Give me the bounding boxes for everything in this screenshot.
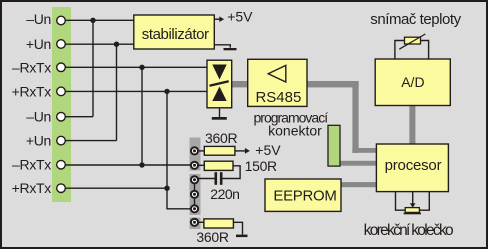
svg-text:A/D: A/D xyxy=(401,74,424,90)
pad c1 xyxy=(191,147,198,154)
TVS diode top xyxy=(212,65,226,80)
terminal t5 xyxy=(57,112,66,121)
svg-text:+Un: +Un xyxy=(26,36,51,52)
svg-text:+5V: +5V xyxy=(227,8,253,24)
wire -Un vertical t1 to t5 xyxy=(92,20,94,116)
wire 150R left xyxy=(198,164,204,166)
A/D box xyxy=(375,59,450,106)
svg-text:konektor: konektor xyxy=(268,123,322,139)
svg-text:–RxTx: –RxTx xyxy=(12,59,51,75)
svg-text:+5V: +5V xyxy=(255,142,281,158)
wire potentiometer right lead xyxy=(419,192,429,211)
terminal t2 xyxy=(57,40,66,49)
jumper pad strip 3 xyxy=(190,218,201,230)
terminal t3 xyxy=(57,63,66,72)
svg-text:korekční kolečko: korekční kolečko xyxy=(364,222,453,239)
svg-text:snímač teploty: snímač teploty xyxy=(370,11,461,28)
thermistor strike line xyxy=(399,34,425,49)
bus konektor to procesor xyxy=(339,161,377,166)
wire t6 +Un xyxy=(65,140,116,142)
junction J4b xyxy=(164,186,169,191)
svg-text:+Un: +Un xyxy=(26,133,51,149)
capacitor 220n plate left xyxy=(215,172,218,185)
thermistor body xyxy=(405,37,421,44)
wire thermistor right lead xyxy=(421,41,429,60)
terminal t7 xyxy=(57,160,66,169)
ground bar (TVS) xyxy=(212,117,227,120)
resistor 360R bottom xyxy=(204,219,234,228)
svg-text:+RxTx: +RxTx xyxy=(12,180,52,196)
wire +RxTx t4 to TVS xyxy=(65,90,207,92)
pad c5 xyxy=(191,205,198,212)
svg-text:220n: 220n xyxy=(210,186,239,202)
resistor 150R xyxy=(204,161,233,170)
wire -Un t1 to stabilizator xyxy=(65,19,134,21)
pad c4 xyxy=(191,191,198,198)
pad c6 xyxy=(191,219,198,226)
wire 360R bottom left xyxy=(198,221,204,223)
wire 360R top left xyxy=(198,150,204,152)
wire 360R top to +5V arrow xyxy=(235,150,246,152)
wire +Un vertical t2 to t6 xyxy=(116,44,118,140)
junction J2 xyxy=(114,42,119,47)
terminal t6 xyxy=(57,136,66,145)
wire 150R right down to cap xyxy=(222,166,240,179)
svg-text:360R: 360R xyxy=(196,229,228,245)
wire t8 +RxTx xyxy=(65,187,167,189)
terminal t4 xyxy=(57,87,66,96)
EEPROM box xyxy=(265,179,341,211)
ground bar (360R bottom) xyxy=(236,235,248,238)
programming connector (green) xyxy=(328,125,340,166)
connector terminal strip (green) xyxy=(52,7,71,202)
pad c2 xyxy=(191,162,198,169)
wire t5 -Un xyxy=(65,116,93,118)
potentiometer arrow xyxy=(410,203,416,208)
wire TVS top lead xyxy=(219,60,221,65)
wire potentiometer left lead xyxy=(396,192,406,211)
wire pad chain c3-c4-c5 xyxy=(194,180,196,209)
junction J1 xyxy=(90,18,95,23)
bus RS485 to corner (horizontal) xyxy=(307,81,359,87)
wire t8 down to pad c5 xyxy=(167,188,191,209)
wire 360R bottom to ground xyxy=(233,222,242,234)
bus EEPROM to procesor xyxy=(341,182,377,187)
TVS zener bar xyxy=(210,81,229,86)
potentiometer body xyxy=(405,208,419,213)
wire +Un t2 to stabilizator xyxy=(65,43,134,45)
wire stabilizator ground xyxy=(214,45,230,48)
svg-text:–Un: –Un xyxy=(26,11,51,27)
svg-text:360R: 360R xyxy=(205,130,237,146)
TVS transil box xyxy=(207,60,232,108)
junction J4 xyxy=(164,89,169,94)
capacitor 220n plate right xyxy=(220,172,223,185)
arrow +5V mid xyxy=(245,148,250,154)
arrow +5V top xyxy=(219,16,224,22)
wire -RxTx vertical t3 to t7 xyxy=(141,67,143,165)
bus A/D to procesor xyxy=(409,105,415,145)
bus corner to procesor xyxy=(352,148,377,153)
svg-text:150R: 150R xyxy=(245,158,277,174)
jumper pad strip 1 xyxy=(190,138,201,171)
bus corner vertical xyxy=(352,81,358,153)
wire cap left to pad c3 xyxy=(198,178,215,180)
svg-text:–RxTx: –RxTx xyxy=(12,157,51,173)
pad c3 xyxy=(191,176,198,183)
procesor box xyxy=(376,144,448,192)
svg-text:RS485: RS485 xyxy=(255,89,301,106)
ground bar (stabilizator) xyxy=(224,48,237,50)
svg-text:stabilizátor: stabilizátor xyxy=(142,26,209,43)
wire potentiometer wiper xyxy=(412,192,414,204)
wire -RxTx t3 to TVS xyxy=(65,66,207,68)
wire t7 -RxTx to pad c2 xyxy=(65,164,191,166)
svg-text:–Un: –Un xyxy=(26,109,51,125)
bus TVS to RS485 xyxy=(232,81,248,87)
svg-text:procesor: procesor xyxy=(385,157,442,174)
svg-text:EEPROM: EEPROM xyxy=(273,188,336,205)
TVS diode bottom xyxy=(212,87,226,102)
wire TVS bottom lead to ground xyxy=(219,101,221,117)
wire thermistor left lead xyxy=(395,41,405,60)
wire stabilizator +5V out xyxy=(214,18,220,20)
junction J3 xyxy=(139,65,144,70)
terminal t8 xyxy=(57,184,66,193)
RS485 box xyxy=(248,59,307,106)
junction J3b xyxy=(139,162,144,167)
svg-text:+RxTx: +RxTx xyxy=(12,83,52,99)
terminal t1 xyxy=(57,16,66,25)
stabilizator box xyxy=(134,15,215,49)
jumper pad strip 2 xyxy=(190,174,201,215)
wire +RxTx vertical t4 to t8 xyxy=(166,91,168,188)
resistor 360R top xyxy=(204,146,235,155)
RS485 buffer triangle xyxy=(268,65,286,82)
